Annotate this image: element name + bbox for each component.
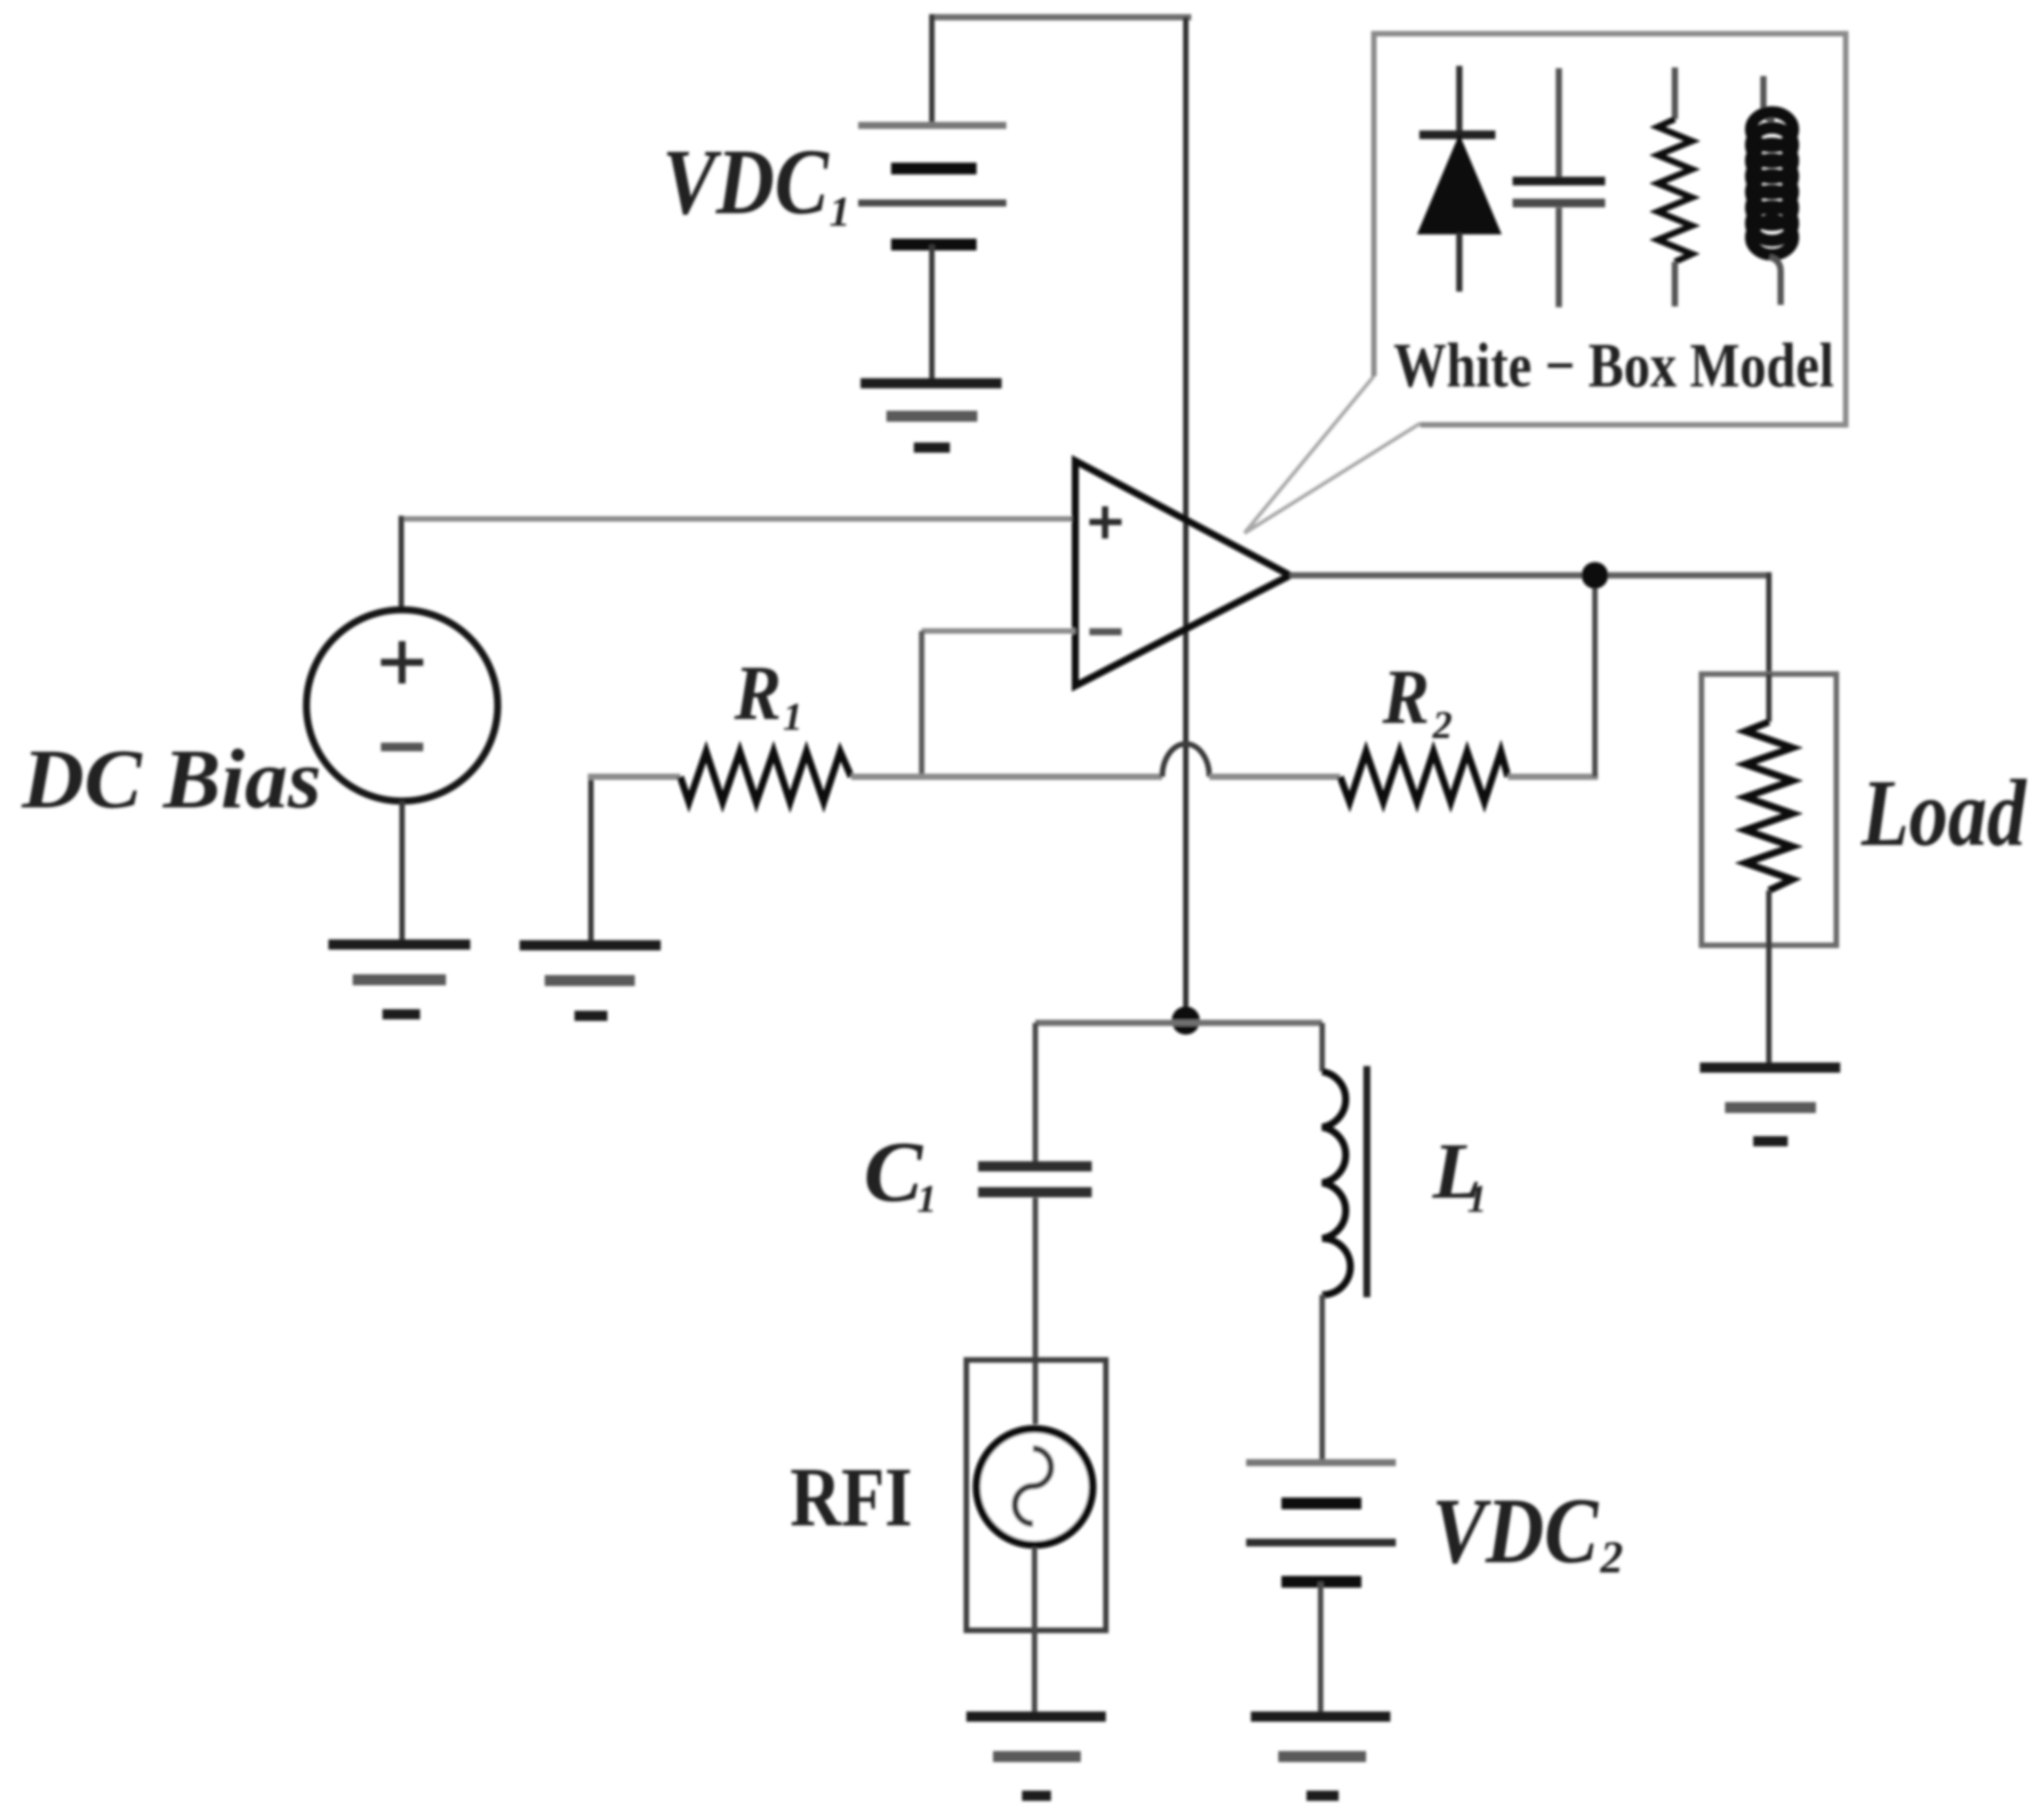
source RFI [977, 1429, 1093, 1545]
wire to C1 [1033, 1023, 1038, 1162]
wire R1 to hump [851, 774, 1162, 780]
svg-text:R: R [1382, 653, 1430, 740]
wire crossover hump [1162, 744, 1209, 777]
wire DC bias top stub [399, 516, 404, 610]
svg-text:2: 2 [1600, 1532, 1623, 1583]
wire noninverting input [401, 517, 1075, 522]
wire load bottom [1767, 890, 1772, 1068]
ground (VDC2) [1251, 1717, 1390, 1796]
svg-text:DC Bias: DC Bias [21, 733, 321, 826]
svg-text:R: R [734, 649, 781, 736]
wire RFI to ground [1032, 1547, 1038, 1717]
op-amp U1 [1075, 461, 1290, 686]
svg-text:RFI: RFI [790, 1451, 912, 1544]
junction node below op-amp [1172, 1006, 1200, 1035]
resistor (white-box) [1658, 67, 1692, 306]
wire into load [1767, 674, 1772, 722]
svg-text:1: 1 [783, 694, 803, 738]
wire hump to R2 [1209, 774, 1340, 780]
svg-text:C: C [864, 1124, 924, 1220]
svg-text:VDC: VDC [662, 129, 830, 234]
battery VDC1 [858, 125, 1006, 383]
battery VDC2 [1246, 1463, 1396, 1717]
inductor (white-box) [1751, 76, 1793, 305]
ground (R1) [520, 945, 661, 1016]
wire node horizontal [1035, 1020, 1322, 1026]
wire R2 right [1508, 774, 1598, 780]
callout box White-Box Model [1374, 34, 1846, 425]
capacitor (white-box) [1513, 68, 1605, 307]
ground (Load) [1700, 1068, 1840, 1141]
wire VDC1 top stub [930, 14, 935, 124]
wire feedback up to output [1593, 575, 1598, 777]
RFI box [966, 1360, 1106, 1630]
svg-text:VDC: VDC [1432, 1478, 1600, 1583]
svg-text:Load: Load [1861, 760, 2027, 866]
wire top horizontal VDC1 to supply line [932, 14, 1191, 20]
resistor R1 [680, 752, 851, 802]
wire inverting input [922, 629, 1075, 634]
svg-text:White − Box Model: White − Box Model [1393, 332, 1834, 401]
junction output node [1582, 562, 1608, 589]
source DC Bias [306, 610, 498, 941]
ground (DC Bias) [328, 945, 470, 1014]
wire R1 left corner to ground [589, 777, 594, 941]
capacitor C1 [978, 1166, 1092, 1192]
wire supply vertical through op-amp to node [1183, 17, 1189, 1021]
inductor L1 [1322, 1066, 1367, 1297]
svg-text:1: 1 [917, 1177, 937, 1220]
wire to L1 [1320, 1023, 1325, 1071]
wire C1 to RFI box [1033, 1198, 1038, 1424]
diode (white-box) [1419, 66, 1499, 292]
wire op-amp output [1290, 572, 1769, 578]
resistor Load [1745, 722, 1792, 890]
svg-text:1: 1 [1467, 1177, 1487, 1220]
wire output corner down to load [1767, 572, 1772, 676]
load box [1702, 674, 1836, 945]
wire feedback vertical [919, 631, 925, 777]
svg-text:1: 1 [829, 188, 850, 235]
ground (VDC1) [861, 383, 1002, 448]
wire R1 left [588, 774, 680, 780]
wire L1 to VDC2 [1320, 1295, 1325, 1463]
resistor R2 [1340, 752, 1508, 802]
svg-text:2: 2 [1432, 702, 1452, 746]
callout tail [1245, 376, 1420, 533]
ground (RFI) [966, 1717, 1106, 1796]
